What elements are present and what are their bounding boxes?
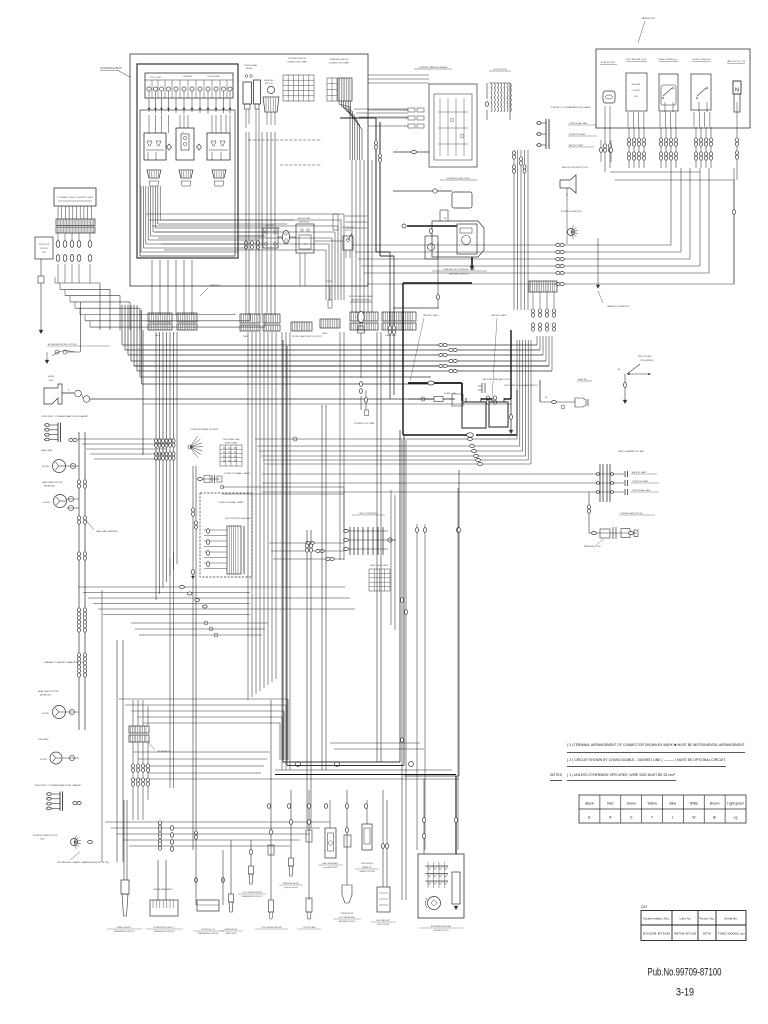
dashed option rows in console [248,139,322,141]
svg-text:CONNECTION CHART: CONNECTION CHART [287,61,309,64]
svg-text:SOLENOID(PRIO SELECT): SOLENOID(PRIO SELECT) [153,927,174,929]
right center strips [350,312,378,321]
fuel tank unit [382,790,384,887]
svg-text:(OPTION FOR MANUAL): (OPTION FOR MANUAL) [225,517,252,520]
svg-text:(ADVANCED): (ADVANCED) [40,694,51,697]
floor lever symbol [358,312,364,323]
center frame rect [282,340,284,762]
svg-text:RELAY: RELAY [246,67,253,70]
svg-text:LIGHTING: LIGHTING [264,80,273,82]
TM controller connector strip [56,219,95,226]
battery 1 [462,402,486,428]
svg-text:2: 2 [405,118,406,120]
svg-text:SPEED SENSOR: SPEED SENSOR [117,927,132,929]
alternator box [418,854,464,918]
connector strip row 4 [263,314,280,323]
diamond junctions [167,144,172,150]
bundle into shift lever from left [222,486,344,488]
motor small wires [439,210,441,221]
svg-text:BACK-UP BUZZER OPTION: BACK-UP BUZZER OPTION [562,166,588,169]
svg-text:24-10W: 24-10W [40,759,47,761]
svg-text:4WD MOTOR: 4WD MOTOR [39,244,50,246]
vertical bundle right of console [351,160,353,313]
svg-text:2: 2 [405,126,406,128]
svg-text:CAT: CAT [641,905,647,909]
flasher unit box 2 [176,128,194,160]
svg-text:CONTROL: CONTROL [40,248,48,250]
alternator rotor [428,897,441,910]
vertical pair x193-196 [192,466,194,850]
svg-text:HEAD LAMP(OPTION): HEAD LAMP(OPTION) [42,481,63,484]
svg-text:ACCELERATOR SW. (OPTION): ACCELERATOR SW. (OPTION) [48,343,77,346]
svg-text:Truck No.: Truck No. [699,917,715,921]
svg-text:T20C-60001-up: T20C-60001-up [718,932,745,936]
battery cable bold [408,382,462,384]
svg-text:OIL STOP LAMP: OIL STOP LAMP [303,926,317,929]
svg-text:(TRANSMISSION CIRCUIT): (TRANSMISSION CIRCUIT) [197,932,219,935]
3 speed TM controller box [54,188,96,206]
svg-text:Brown: Brown [710,802,720,806]
svg-text:TURN SIGNAL LAMP: TURN SIGNAL LAMP [632,489,651,492]
svg-text:WORKING LAMP(OPT): WORKING LAMP(OPT) [561,210,583,213]
svg-text:PRESSURE SW.(GL): PRESSURE SW.(GL) [283,883,300,885]
console to parking brake wires [368,74,429,76]
left fan bundle into page [55,282,100,284]
speed sensor [123,800,125,880]
console box outline [130,54,368,286]
connector stacks right of battery [532,292,534,308]
svg-text:Schematic No.: Schematic No. [643,917,670,921]
svg-text:FUEL TANK UNIT: FUEL TANK UNIT [376,919,389,922]
svg-text:SWITCH: SWITCH [345,230,351,232]
svg-text:( 1 ) UNLESS OTHERWISE SPECIF: ( 1 ) UNLESS OTHERWISE SPECIFIED, WIRE S… [567,773,676,777]
svg-text:T/M OIL TEMP: T/M OIL TEMP [150,77,162,79]
svg-text:(T/M CARRIER): (T/M CARRIER) [640,359,654,362]
svg-text:(ENGINE CIRCUIT): (ENGINE CIRCUIT) [449,274,469,276]
svg-text:FLOOR/WAGON TANK: FLOOR/WAGON TANK [349,295,374,298]
svg-text:DP70: DP70 [703,932,711,936]
svg-text:Green: Green [626,802,636,806]
TM controller wires to strip [57,206,59,219]
bundle R8 stepped y586-618 [78,586,345,588]
pressure sw clutch [346,790,348,885]
battery to frame bold [510,330,512,399]
svg-text:CONSOLE BOX: CONSOLE BOX [100,66,122,70]
svg-text:CONNECTION CHART: CONNECTION CHART [329,62,351,65]
bundle R7 shift area y543-559 [269,542,344,544]
svg-text:SPARE: SPARE [326,280,333,283]
svg-text:GLOW PLUG: GLOW PLUG [493,69,507,71]
svg-text:(VALVE UNIT): (VALVE UNIT) [226,932,237,935]
svg-text:UNIT: UNIT [42,252,46,254]
mid verticals x391-397 [390,490,392,625]
svg-text:BACK-UP LAMP: BACK-UP LAMP [569,144,584,147]
starting motor bold feed [407,225,457,227]
gauge drop wires [148,98,150,112]
small connectors above sensors [268,804,271,809]
left vertical pair [78,432,80,730]
tc gl thermostat sw [250,840,252,866]
svg-text:T/M HARNESS: T/M HARNESS [157,750,171,753]
staircase returns right panel [670,168,672,245]
bold feed row y118 [340,117,376,119]
svg-text:1: 1 [396,149,397,151]
svg-text:GENERAL: GENERAL [183,75,192,78]
svg-text:(ADVANCED): (ADVANCED) [44,485,55,488]
left connector pairs under controller [57,233,59,240]
svg-text:LIGHTING SWITCH: LIGHTING SWITCH [288,58,306,60]
svg-text:HARNESS W/R: HARNESS W/R [641,17,655,20]
svg-text:T/M A/STOP LAMP: T/M A/STOP LAMP [632,480,649,483]
svg-text:BATTERY CABLE: BATTERY CABLE [491,314,507,317]
console right connpairs [245,241,248,245]
bundle R4 horn rows [90,398,431,400]
svg-text:(TRANSMISSION CIRCUIT): (TRANSMISSION CIRCUIT) [153,930,175,933]
vertical wire to submoter [597,238,599,288]
left single wire x102 [101,590,103,862]
svg-text:TURN SIGNAL: TURN SIGNAL [244,64,258,67]
svg-text:SHIFT LEVER(F/R): SHIFT LEVER(F/R) [359,513,377,515]
junction circle on R5 row [293,437,297,441]
svg-text:HEAD LAMP HARNESS: HEAD LAMP HARNESS [96,530,118,533]
left column vertical wires lower [116,640,118,862]
svg-text:TURN SIGNAL LAMP: TURN SIGNAL LAMP [224,472,251,475]
bundle R3 y345-389 [121,305,123,345]
4wd motor control unit [35,237,53,259]
svg-text:CONTROL: CONTROL [631,90,640,92]
4wd drop wire [40,259,42,276]
svg-text:FRONT COMBINATION LAMP: FRONT COMBINATION LAMP [35,784,82,787]
svg-text:POWER FOR CAB: POWER FOR CAB [354,422,375,425]
svg-text:Black: Black [585,802,594,806]
bold feed pair x390-394 [389,252,391,399]
svg-text:L: L [672,816,674,820]
svg-text:Red: Red [607,802,613,806]
junction row y308 [393,307,439,309]
meter unit box 1 [144,133,166,160]
svg-text:WORKING LAMP(OPTION): WORKING LAMP(OPTION) [33,834,58,837]
svg-text:24-60W: 24-60W [42,713,49,715]
svg-text:N: N [735,88,739,94]
svg-text:TURN SIGNAL LEVER: TURN SIGNAL LEVER [190,428,219,431]
svg-text:SOLENOID(F - R): SOLENOID(F - R) [201,929,215,931]
console cascade left drops [140,186,142,252]
panel drop wires with connectors [628,127,630,168]
vertical x540 short [539,380,541,402]
gauge strip [145,73,233,98]
connector strip row 2 [177,313,197,322]
svg-text:HEAD LAMP(OPTION): HEAD LAMP(OPTION) [38,690,59,693]
buzzer drop [566,193,568,244]
svg-text:3 SPEED T/M CONTROLLER: 3 SPEED T/M CONTROLLER [57,197,94,199]
bundle R5 left y439-461 [78,438,173,440]
gauge symbols [147,87,151,91]
frame junction circles [296,762,301,767]
glow plug bus wire [509,83,511,120]
control parking brake box [429,84,477,167]
level sensor brake oil [362,824,372,850]
svg-text:User for: User for [679,917,690,921]
svg-text:(JA/G): (JA/G) [322,332,328,335]
bundle R12 y820-850 [105,821,330,823]
svg-text:(FUEL SYSTEM): (FUEL SYSTEM) [377,924,390,926]
parking brake connectors [408,108,415,112]
svg-text:NOTES: NOTES [550,773,563,777]
svg-text:(24V): (24V) [49,380,54,382]
svg-text:LICENSE LAMP(OPTION): LICENSE LAMP(OPTION) [620,512,643,515]
connector strip above grid [529,281,557,292]
svg-text:SEAT SW.: SEAT SW. [578,378,588,381]
svg-text:EARTH STRAP: EARTH STRAP [638,355,652,358]
R8b rows y623-635 [131,622,268,624]
svg-text:ES109-87100: ES109-87100 [643,932,670,936]
instrument cluster inner box [137,64,238,258]
svg-text:(TRANSMISSION CIRCUIT): (TRANSMISSION CIRCUIT) [241,895,263,898]
vertical pair x307-311 [306,530,308,828]
alternator bold input [455,776,457,854]
svg-text:PRESSURE SW.: PRESSURE SW. [225,929,238,931]
svg-text:HARNESS, SUBMOTER: HARNESS, SUBMOTER [607,305,630,308]
verticals x320-345 tall [321,405,323,770]
svg-text:TURN SIGNAL LAMP: TURN SIGNAL LAMP [569,122,588,125]
battery 2 [489,402,508,427]
alternator diode bridge [427,866,431,870]
svg-text:24-60W: 24-60W [42,466,49,468]
bold ground bus lower [403,434,470,436]
svg-text:FRONT COMBINATION LAMP: FRONT COMBINATION LAMP [551,106,592,109]
svg-text:ALTERNATOR(24V-30A): ALTERNATOR(24V-30A) [431,925,451,928]
fuel tank second wire [386,800,388,887]
svg-text:Light green: Light green [727,802,744,806]
starting switch rows to right [354,108,408,110]
svg-text:(ENGINE CIRCUIT): (ENGINE CIRCUIT) [434,930,449,932]
svg-text:(24V): (24V) [40,839,45,841]
bold pair down from start switch [375,118,377,252]
bundle R5 right y439-464 [255,438,517,440]
e-gl thermostat unit [270,700,272,900]
svg-text:(press for oil press): (press for oil press) [284,887,298,889]
svg-text:E-GL THERMOSTAT UNIT: E-GL THERMOSTAT UNIT [262,926,282,929]
svg-text:HARNESS(OPTION): HARNESS(OPTION) [584,545,601,548]
svg-text:TURN SIGNAL: TURN SIGNAL [207,75,220,78]
center verticals below strips [247,332,249,700]
svg-text:SOLENOID BHG. ITEM: SOLENOID BHG. ITEM [446,178,469,180]
verticals x402-407 long [401,440,403,900]
svg-text:Serial No.: Serial No. [724,917,738,921]
svg-text:RELAY, POWER (A.C.): RELAY, POWER (A.C.) [658,58,678,61]
svg-text:GROUND LINE(BATTERY): GROUND LINE(BATTERY) [504,384,539,387]
spare rows right of console [345,215,367,217]
svg-text:LEVER CHART: LEVER CHART [225,442,238,445]
stub verticals x393-397 [396,332,398,383]
back-up relay assembly [263,228,278,248]
svg-text:SHIFT LEVER CHART: SHIFT LEVER CHART [370,564,389,567]
svg-text:G: G [630,816,633,820]
svg-text:T/M A/STOP LAMP: T/M A/STOP LAMP [569,133,586,136]
svg-text:NEUTRAL: NEUTRAL [632,83,641,86]
svg-text:CONTROL PARKING BRAKE: CONTROL PARKING BRAKE [419,66,448,69]
R5 right end connectors [468,438,473,441]
starting motor [432,221,484,257]
top right panel box [596,49,750,128]
alternator regulator [452,872,460,904]
svg-text:Pub.No.99709-87100: Pub.No.99709-87100 [648,967,722,979]
svg-text:Blue: Blue [670,802,677,806]
svg-text:WORK LAMP SWITCH (OPT): WORK LAMP SWITCH (OPT) [292,335,323,338]
svg-text:Lg: Lg [734,816,738,820]
level sensor air [325,828,336,858]
turn signal block wires [204,529,227,531]
svg-text:PRESSURE SW.: PRESSURE SW. [341,913,354,915]
svg-text:LAMP, PILOT N - 12V: LAMP, PILOT N - 12V [727,60,746,63]
wire color table [579,795,746,823]
svg-text:( 2 ) CIRCUIT SHOWN BY CHAIN: ( 2 ) CIRCUIT SHOWN BY CHAIN DOUBLE - DA… [567,758,726,762]
turn signal block option manual [200,493,252,577]
vertical x458 [457,488,459,850]
svg-text:SWITCH: SWITCH [265,83,273,85]
svg-text:BACK-UP LAMP: BACK-UP LAMP [632,471,647,474]
svg-text:FRONT COMBINATION LAMP: FRONT COMBINATION LAMP [42,415,89,418]
svg-text:2: 2 [405,110,406,112]
svg-text:WORKING LAMP HARNESS(OPTION): WORKING LAMP HARNESS(OPTION) [57,861,110,864]
console cascade band to right [146,213,344,215]
connector trapezoids below meter boxes [147,170,161,178]
svg-text:RELAY, POWER (B.L.): RELAY, POWER (B.L.) [692,58,712,61]
solenoid F R [195,878,198,883]
svg-text:LEVEL SENSOR: LEVEL SENSOR [361,863,374,865]
svg-text:T.C.GL THERMOSTAT SW.: T.C.GL THERMOSTAT SW. [242,891,263,894]
right columns x514-528 [513,150,515,310]
left vertical bundle x122-143 [142,330,144,455]
svg-text:HEAD LAMP: HEAD LAMP [41,449,53,452]
svg-text:FL: FL [182,132,184,134]
wires to backup relays [238,235,263,237]
R8 connectors [180,586,185,589]
verticals x377-381 [376,332,378,762]
rear lamp right combs [624,471,626,477]
svg-text:3-19: 3-19 [676,987,694,999]
svg-text:(TRANSMISSION CIRCUIT): (TRANSMISSION CIRCUIT) [113,930,135,933]
svg-text:White: White [689,802,698,806]
svg-text:HARNESS: HARNESS [210,284,220,287]
svg-text:SIDE LAMP: SIDE LAMP [38,738,49,741]
rear lamp mid comb [599,464,601,502]
svg-text:FUSE HOLDER: FUSE HOLDER [601,62,615,64]
vertical x459 long [458,470,460,776]
central vertical bundle from console to strips [245,132,247,315]
connector strip row 3 [240,314,260,323]
svg-text:TURN SIGNAL LAMP: TURN SIGNAL LAMP [218,501,245,504]
svg-text:(CABIN SIDE): (CABIN SIDE) [385,334,397,337]
svg-text:2: 2 [440,188,441,190]
svg-text:24-60W: 24-60W [43,502,50,504]
svg-text:STARTING SWITCH: STARTING SWITCH [330,58,349,61]
svg-text:TURN SIGNAL LAMP: TURN SIGNAL LAMP [222,438,240,441]
svg-text:CONT. NEUTRAL LOCK: CONT. NEUTRAL LOCK [626,58,647,61]
starting switch wire fan [339,101,350,160]
submoter vertical stubs [600,140,602,162]
work lamp switch strip [291,322,312,331]
left mid vertical bundle x156-177 [155,332,157,600]
cluster internal wires [148,115,150,133]
verticals x417-427 [416,524,418,850]
svg-text:HORN: HORN [48,376,54,378]
svg-text:Yellow: Yellow [647,802,657,806]
svg-text:( 3 ) TERMINAL ARRANGEMENT OF: ( 3 ) TERMINAL ARRANGEMENT OF CONNECTOR … [567,743,745,747]
pressure sw gl [290,790,292,858]
connector strip row 1 [148,313,172,322]
svg-text:REAR COMBINATION LAMP: REAR COMBINATION LAMP [618,450,645,453]
right margin stair wires [610,171,700,173]
connector strip row 6 [320,319,340,328]
svg-text:BATTERY CABLE: BATTERY CABLE [423,314,439,317]
bundle R11 y743-779 [330,742,420,744]
pressure sw valve [230,840,232,894]
R12 connector stack [159,821,162,825]
meter unit box 3 [207,133,230,160]
alternator feed wires [423,779,425,854]
solenoid prio select [150,900,178,916]
svg-text:BACK-UP LAMP: BACK-UP LAMP [298,217,311,220]
svg-text:TIMER RELAY: TIMER RELAY [298,221,310,224]
svg-text:STARTING MOTOR(GLM - 5kW): STARTING MOTOR(GLM - 5kW) [443,268,475,271]
oil stop lamp [308,790,310,900]
svg-text:99709-87100: 99709-87100 [674,932,696,936]
bundle R10 y697-730 [119,698,288,700]
